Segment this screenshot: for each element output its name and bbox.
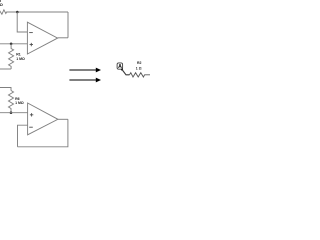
- label R6 value: [15, 97, 24, 105]
- arrow 1: [69, 68, 101, 73]
- wire noninverting input U2: [0, 112, 28, 114]
- resistor R6 (vertical): [9, 91, 14, 113]
- wire output U2: [58, 118, 68, 120]
- svg-text:1 MΩ: 1 MΩ: [15, 101, 24, 105]
- probe leader dot: [121, 68, 123, 70]
- wire noninverting input U1: [0, 43, 27, 45]
- wire feedback bottom U2: [18, 119, 68, 147]
- op-amp U2: [28, 103, 58, 135]
- svg-text:1 MΩ: 1 MΩ: [16, 57, 25, 61]
- wire top (node to feedback corner): [12, 11, 68, 13]
- plus sign U1: [30, 43, 33, 46]
- wire R1 bottom to left edge: [0, 68, 11, 70]
- minus sign U2: [29, 126, 33, 128]
- minus sign U1: [29, 32, 33, 34]
- svg-text:R2: R2: [137, 61, 142, 65]
- svg-text:1 Ω: 1 Ω: [136, 67, 142, 71]
- node junction dot R1 top: [10, 43, 13, 46]
- node junction dot top: [16, 11, 19, 14]
- plus sign U2: [30, 113, 33, 116]
- resistor R2 (horizontal): [130, 73, 151, 77]
- probe node A box: [117, 63, 123, 69]
- wire output U1: [58, 37, 68, 39]
- clipped source label text (left edge): [0, 0, 4, 7]
- arrow 2: [69, 78, 101, 83]
- resistor RS (horizontal, clipped at left edge): [0, 10, 12, 14]
- op-amp U1: [27, 22, 57, 54]
- node junction dot R6 bottom: [10, 111, 13, 114]
- resistor R1 (vertical): [9, 44, 14, 69]
- svg-text:R1: R1: [16, 52, 21, 56]
- wire inverting input U1: [17, 12, 27, 32]
- wire feedback right vertical U1: [67, 12, 69, 38]
- label R2 value: [136, 61, 142, 70]
- wire inverting input U2: [18, 125, 28, 147]
- svg-text:1 kΩ: 1 kΩ: [0, 2, 4, 7]
- wire top rail circuit 2: [0, 88, 11, 91]
- probe leader wire: [122, 70, 130, 75]
- label R1 value: [16, 52, 25, 60]
